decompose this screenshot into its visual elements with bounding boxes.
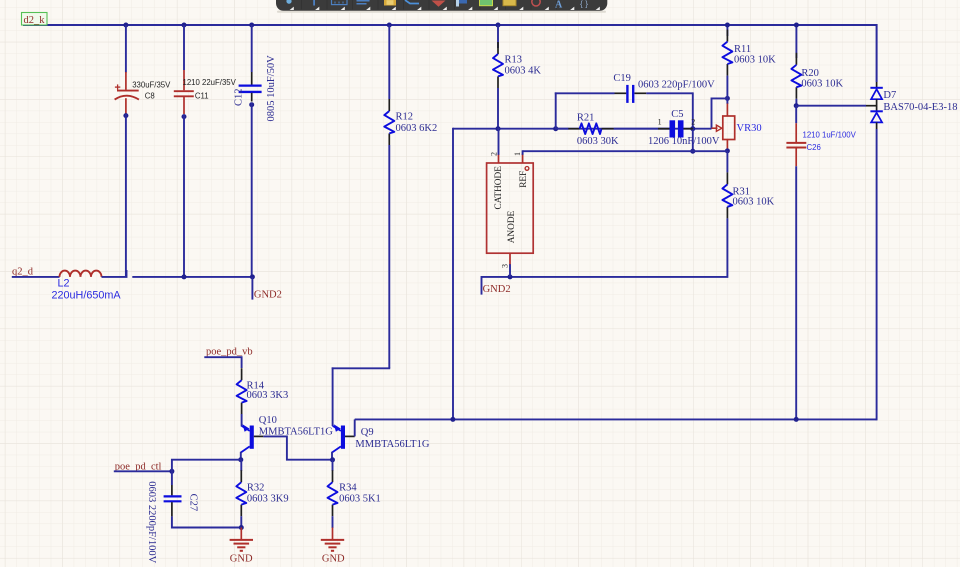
wire C12 top <box>251 25 253 72</box>
wire R34 top <box>332 460 334 471</box>
junction R32/C27/GND <box>239 525 244 530</box>
resistor R31 <box>722 172 774 218</box>
capacitor C12 (0805 10uF/50V) <box>234 55 278 122</box>
svg-text:0603 3K3: 0603 3K3 <box>247 390 289 401</box>
junction C12 bottom rail <box>250 274 255 279</box>
junction C11 bottom rail <box>182 274 187 279</box>
wire C12 to bottom rail <box>251 103 253 277</box>
junction R12 top rail <box>387 23 392 28</box>
TL431 pin 2 cathode <box>489 128 498 163</box>
junction C11 top rail <box>182 23 187 28</box>
junction Q9 collector <box>330 457 335 462</box>
diode D7 BAS70-04-E3-18 <box>870 82 957 129</box>
svg-text:0603 3K9: 0603 3K9 <box>247 494 289 505</box>
wire C8 top <box>125 25 127 73</box>
wire C19 right riser <box>692 92 694 129</box>
wire q2_d to L2 <box>12 276 60 278</box>
wire R12 to Q9 emitter corner 2 <box>332 367 391 369</box>
svg-text:0603 4K: 0603 4K <box>505 66 542 77</box>
svg-text:C8: C8 <box>145 92 155 101</box>
capacitor C19 (0603 220pF/100V) <box>613 73 715 103</box>
svg-text:0603 10K: 0603 10K <box>733 197 775 208</box>
svg-text:GND: GND <box>322 553 345 564</box>
junction C12 top rail <box>249 23 254 28</box>
pin D7 mid black <box>866 105 877 107</box>
wire ctl node vertical <box>172 460 241 485</box>
net label d2_k <box>22 13 48 26</box>
svg-text:0603 30K: 0603 30K <box>577 136 619 147</box>
svg-text:R13: R13 <box>505 55 523 66</box>
capacitor C26 (1210 1uF/100V) <box>786 106 856 167</box>
junction TL431 anode/GND2 <box>508 274 513 279</box>
capacitor C27 (0603 2200pF/100V) <box>146 481 199 563</box>
potentiometer VR30 <box>712 98 762 151</box>
wire R13 to cathode node <box>497 88 499 129</box>
wire D7 bottom to base line <box>876 129 878 420</box>
svg-text:1210 1uF/100V: 1210 1uF/100V <box>803 131 857 140</box>
svg-text:A: A <box>555 0 563 11</box>
wire C5 node to REF line <box>692 129 694 152</box>
floating toolbar <box>276 0 607 13</box>
svg-text:C26: C26 <box>807 143 821 152</box>
TL431 pin 1 ref <box>513 150 522 163</box>
junction Q10 collector <box>238 457 243 462</box>
wire poe_pd_ctl <box>114 470 172 472</box>
svg-text:R32: R32 <box>247 483 265 494</box>
wire cathode node horizontal <box>453 128 712 130</box>
capacitor C8 (polarized 330uF/35V) <box>115 72 172 114</box>
svg-text:C5: C5 <box>671 109 683 120</box>
svg-text:R20: R20 <box>801 68 819 79</box>
svg-text:q2_d: q2_d <box>12 266 34 277</box>
svg-text:2: 2 <box>691 118 695 127</box>
svg-text:220uH/650mA: 220uH/650mA <box>52 289 122 301</box>
svg-text:0603 10K: 0603 10K <box>801 78 843 89</box>
svg-text:R34: R34 <box>339 483 357 494</box>
junction R20 top rail <box>794 23 799 28</box>
svg-text:GND2: GND2 <box>254 290 282 301</box>
svg-text:R12: R12 <box>396 112 414 123</box>
junction R11 top rail <box>725 23 730 28</box>
wire Q9 base line <box>355 418 877 420</box>
svg-text:330uF/35V: 330uF/35V <box>132 81 171 90</box>
svg-text:1: 1 <box>513 152 522 156</box>
junction C26 / base line <box>794 417 799 422</box>
resistor R11 <box>722 30 776 76</box>
wire C19 top left <box>555 92 615 94</box>
junction below C12 <box>249 102 254 107</box>
transistor Q9 MMBTA56LT1G <box>332 424 430 452</box>
wire Q9 collector <box>331 452 333 461</box>
svg-text:CATHODE: CATHODE <box>494 166 504 210</box>
svg-text:0603 220pF/100V: 0603 220pF/100V <box>638 79 715 90</box>
wire R13 top <box>497 25 499 48</box>
wire Q10 base run <box>263 436 333 459</box>
wire C11 to bottom rail <box>183 115 185 277</box>
wire R32 top <box>240 460 242 471</box>
junction below C11 <box>182 114 187 119</box>
resistor R32 <box>236 470 288 516</box>
power ground GND (right) <box>321 528 345 565</box>
junction R21 left node <box>553 126 558 131</box>
resistor R34 <box>328 470 381 516</box>
wire Q9 base up <box>354 419 356 436</box>
svg-text:{ }: { } <box>580 0 588 9</box>
svg-text:1210 22uF/35V: 1210 22uF/35V <box>183 78 237 87</box>
net label GND2 (bottom rail) <box>252 277 282 301</box>
svg-text:1: 1 <box>658 118 662 127</box>
wire top rail d2_k <box>23 25 877 82</box>
wire R11 top <box>726 25 728 36</box>
svg-text:C19: C19 <box>613 73 631 84</box>
wire C26 to bottom <box>795 166 797 419</box>
wire R31 top <box>726 151 728 172</box>
svg-text:2: 2 <box>489 152 498 156</box>
svg-text:R31: R31 <box>733 186 751 197</box>
junction poe_pd_ctl tap <box>169 469 174 474</box>
svg-text:GND2: GND2 <box>483 284 511 295</box>
wire C19 top right <box>646 92 693 94</box>
svg-text:C12: C12 <box>234 88 245 106</box>
wire C8 to bottom rail <box>125 114 127 277</box>
junction R20/C26/D7 mid <box>794 103 799 108</box>
wire REF line <box>523 150 728 152</box>
svg-text:MMBTA56LT1G: MMBTA56LT1G <box>355 439 429 450</box>
svg-text:poe_pd_vb: poe_pd_vb <box>206 347 253 358</box>
svg-text:C11: C11 <box>195 92 209 101</box>
wire R34 bottom <box>332 516 334 528</box>
svg-text:L2: L2 <box>58 278 70 290</box>
wire left vertical <box>452 128 454 420</box>
wire Q10 collector <box>240 452 242 461</box>
wire R20 top <box>795 25 797 58</box>
wire L2 to C8 column corner <box>102 270 127 277</box>
svg-text:1206 10nF/100V: 1206 10nF/100V <box>648 136 720 147</box>
svg-text:VR30: VR30 <box>737 123 762 134</box>
resistor R14 <box>237 368 289 414</box>
wire poe_pd_vb <box>204 357 241 368</box>
svg-text:d2_k: d2_k <box>24 15 46 26</box>
wire R12 top <box>388 25 390 99</box>
wire R31 to GND2 line <box>482 218 728 294</box>
wire mid to D7 <box>796 105 866 107</box>
wire R14 to Q10 emitter <box>241 414 243 427</box>
wire R11 bottom <box>726 76 728 99</box>
svg-text:Q10: Q10 <box>259 415 277 426</box>
junction VR30 bottom <box>725 148 730 153</box>
svg-text:R21: R21 <box>577 113 595 124</box>
wire R12 to Q9 emitter corner 1 <box>388 145 390 368</box>
transistor Q10 MMBTA56LT1G <box>241 415 333 453</box>
svg-text:REF: REF <box>519 171 529 188</box>
wire C19 left riser <box>555 92 557 129</box>
TL431 pin 3 anode <box>501 253 510 277</box>
svg-text:0603 5K1: 0603 5K1 <box>339 494 381 505</box>
shunt regulator TL431 box <box>487 163 534 253</box>
svg-text:3: 3 <box>501 264 510 268</box>
inductor L2 (220uH/650mA) <box>52 271 122 302</box>
junction below C8 <box>123 113 128 118</box>
svg-text:0603 10K: 0603 10K <box>734 55 776 66</box>
svg-text:ANODE: ANODE <box>507 210 517 243</box>
resistor R20 <box>791 53 843 99</box>
svg-text:D7: D7 <box>883 90 896 101</box>
svg-text:C27: C27 <box>188 494 199 512</box>
svg-text:GND: GND <box>230 553 253 564</box>
junction C5 pin2 node <box>690 126 695 131</box>
junction REF line x=693 <box>690 149 695 154</box>
wire C11 top <box>183 25 185 70</box>
capacitor C5 (1206 10nF/100V) <box>614 109 720 147</box>
svg-text:Q9: Q9 <box>361 427 374 438</box>
svg-text:R11: R11 <box>734 44 751 55</box>
svg-text:BAS70-04-E3-18: BAS70-04-E3-18 <box>883 102 957 113</box>
wire C27 bottom <box>172 516 241 527</box>
svg-text:0603 6K2: 0603 6K2 <box>396 123 438 134</box>
junction VR30 top <box>725 96 730 101</box>
capacitor C11 (1210 22uF/35V) <box>174 70 237 114</box>
wire bottom rail <box>132 276 252 278</box>
svg-text:0805 10uF/50V: 0805 10uF/50V <box>266 55 277 122</box>
wire R32 bottom <box>240 516 242 527</box>
resistor R13 <box>493 42 541 88</box>
junction R13 top rail <box>496 23 501 28</box>
wire R20 bottom <box>795 99 797 106</box>
resistor R21 (0603 30K) <box>557 113 620 147</box>
power ground GND (left) <box>230 528 253 565</box>
junction C8 top rail <box>123 23 128 28</box>
junction R13/cathode <box>496 126 501 131</box>
wire down to Q9 emitter <box>332 367 334 426</box>
svg-text:0603 2200pF/100V: 0603 2200pF/100V <box>146 481 157 563</box>
junction left vertical / base line <box>450 417 455 422</box>
resistor R12 <box>384 99 437 145</box>
